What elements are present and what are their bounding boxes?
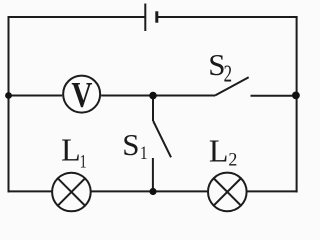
node center (junction dot) xyxy=(149,92,157,100)
svg-text:L: L xyxy=(209,133,229,169)
wire left side xyxy=(8,16,10,192)
switch S2 blade xyxy=(215,77,249,95)
wire right side xyxy=(296,16,298,192)
svg-text:2: 2 xyxy=(224,61,232,87)
switch S1 blade xyxy=(153,121,171,157)
wire top-left (battery to left corner) xyxy=(8,16,145,18)
svg-text:2: 2 xyxy=(228,150,237,171)
lamp L1 circle xyxy=(52,173,91,212)
svg-text:1: 1 xyxy=(80,151,87,172)
battery short plate xyxy=(155,11,158,22)
wire bottom-right (L2 to corner) xyxy=(247,190,297,192)
svg-text:1: 1 xyxy=(140,143,148,164)
node right (junction dot) xyxy=(292,92,300,100)
wire S1 branch upper xyxy=(152,96,154,122)
wire middle row right (S2 to right node) xyxy=(251,95,297,97)
node left (junction dot) xyxy=(5,92,12,99)
svg-text:V: V xyxy=(71,75,92,115)
svg-text:S: S xyxy=(122,127,139,162)
lamp L2 cross xyxy=(214,178,241,205)
wire top-right (battery to right corner) xyxy=(158,16,298,18)
svg-text:L: L xyxy=(61,132,81,168)
node bottom (junction dot) xyxy=(149,188,156,195)
lamp L2 circle xyxy=(208,173,247,212)
wire middle row (voltmeter to S2 contact) xyxy=(101,95,215,97)
wire bottom-middle (L1 to L2) xyxy=(92,190,208,192)
battery long plate xyxy=(144,4,146,32)
wire bottom-left (corner to L1) xyxy=(8,190,52,192)
lamp L1 cross xyxy=(58,178,85,205)
wire middle row left (node to voltmeter) xyxy=(8,95,63,97)
voltmeter U1 circle xyxy=(63,76,100,113)
wire S1 branch lower xyxy=(152,158,154,191)
